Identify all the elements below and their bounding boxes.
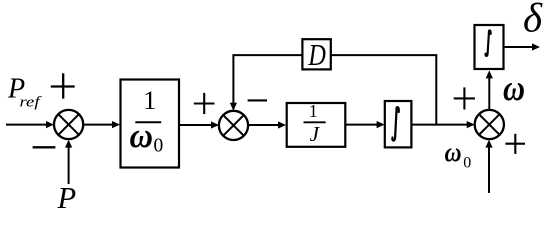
block B1 gain 1/w0 — [121, 80, 180, 168]
wire S2 to block 1/J — [248, 124, 280, 126]
summing junction S1 — [54, 110, 83, 139]
wire S1 to block 1/w0 — [83, 124, 114, 126]
block I2 integrator — [475, 25, 504, 69]
svg-text:ω: ω — [130, 116, 154, 155]
svg-text:P: P — [57, 181, 77, 215]
svg-text:0: 0 — [463, 155, 471, 172]
svg-text:1: 1 — [309, 101, 318, 121]
svg-text:D: D — [308, 38, 326, 72]
block B2 gain 1/J — [287, 103, 346, 147]
wire w0 input arrow — [488, 145, 490, 193]
wire I1 to summing junction S3 — [411, 124, 468, 126]
svg-text:δ: δ — [523, 0, 543, 41]
svg-text:ω: ω — [445, 137, 462, 167]
svg-text:0: 0 — [154, 135, 164, 156]
minus sign at summing junction S2 top — [248, 99, 267, 101]
svg-text:1: 1 — [143, 85, 156, 115]
minus sign at summing junction S1 bottom — [33, 146, 56, 148]
wire P input arrow — [68, 145, 70, 184]
plus sign at summing junction S3 left — [454, 97, 475, 99]
plus sign at summing junction S2 left — [194, 102, 215, 104]
plus sign at summing junction S3 bottom — [505, 143, 525, 145]
block D damping — [302, 39, 330, 69]
svg-text:ω: ω — [503, 68, 525, 109]
summing junction S3 — [475, 110, 504, 139]
svg-text:ref: ref — [20, 95, 42, 111]
wire delta output arrow — [504, 46, 534, 48]
plus sign at summing junction S1 top — [51, 85, 75, 87]
wire S3 to integrator I2 — [488, 76, 490, 110]
wire B2 to integrator I1 — [346, 124, 379, 126]
wire B1 to summing junction S2 — [179, 124, 213, 126]
summing junction S2 — [219, 111, 248, 140]
block I1 integrator — [385, 101, 412, 147]
wire Pref input arrow — [6, 124, 48, 126]
wire D feedback path — [233, 55, 436, 126]
